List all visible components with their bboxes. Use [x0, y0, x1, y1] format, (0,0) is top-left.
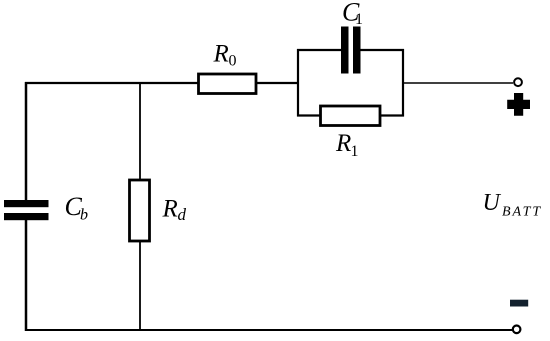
svg-text:d: d: [178, 205, 187, 224]
resistor R0: [199, 74, 257, 94]
wire: Rd branch lower (Rd to bottom rail): [139, 241, 141, 330]
wire: left rail vertical lower (Cb to bottom rail): [25, 220, 28, 331]
label Cb: [65, 192, 89, 224]
wire: top rail from left corner to R0: [25, 82, 199, 84]
svg-text:R: R: [213, 41, 229, 68]
wire: R0 to parallel RC box: [256, 82, 298, 84]
parallel RC box bottom edge: [297, 114, 404, 116]
svg-text:0: 0: [229, 52, 237, 69]
wire: Rd branch upper (top rail to Rd): [139, 83, 141, 180]
svg-text:1: 1: [351, 143, 359, 160]
parallel RC box left edge: [297, 49, 299, 117]
label R1: [335, 130, 359, 160]
svg-text:R: R: [162, 196, 178, 223]
svg-text:1: 1: [355, 11, 363, 28]
parallel RC box right edge: [402, 49, 404, 117]
label U_BATT: [483, 190, 543, 220]
resistor R1: [321, 106, 381, 126]
capacitor C1 plates: [341, 27, 361, 74]
wire: left rail vertical upper (top rail to Cb): [25, 82, 28, 200]
capacitor Cb plates: [4, 200, 49, 220]
plus sign: [507, 93, 530, 116]
resistor Rd: [130, 180, 150, 241]
label R0: [213, 41, 237, 70]
positive terminal circle: [514, 78, 522, 86]
wire: bottom rail: [25, 329, 512, 331]
svg-text:BATT: BATT: [502, 205, 542, 220]
minus sign: [510, 300, 528, 307]
parallel RC box top edge (split by C1 plates): [297, 49, 404, 51]
label Rd: [162, 196, 187, 225]
label C1: [342, 0, 363, 28]
svg-text:b: b: [80, 207, 88, 224]
svg-text:U: U: [483, 190, 502, 216]
svg-text:R: R: [335, 130, 351, 157]
negative terminal circle: [513, 326, 521, 334]
wire: box to positive terminal: [403, 82, 513, 84]
